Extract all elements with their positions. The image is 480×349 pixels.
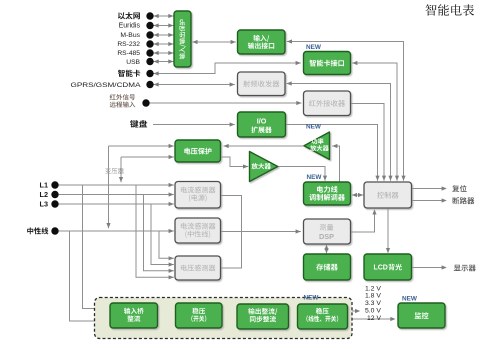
wire: sensor bus to measurement DSP: [221, 231, 301, 233]
node dot USB: [146, 58, 153, 65]
svg-text:12 V: 12 V: [367, 315, 381, 322]
wire: DSP to memory (bidirectional): [326, 245, 328, 253]
wire: I/O protection to I/O interface (bidirectional): [192, 41, 236, 43]
box input bridge rectifier: [110, 303, 158, 328]
amplifier (triangle): [250, 152, 278, 182]
power amplifier (triangle, pointing left): [304, 132, 330, 160]
wire: L1 branch to voltage sensor: [136, 185, 174, 277]
wire: voltage protection left input B (to L1 via transformer): [121, 156, 174, 158]
box RF transceiver: [238, 72, 286, 96]
svg-text:NEW: NEW: [307, 174, 323, 181]
node dot L2: [51, 191, 58, 198]
box controller: [364, 182, 412, 208]
wire: L3 phase line: [58, 203, 174, 205]
wire: L1 phase line: [58, 184, 174, 186]
wire: measurement DSP to controller: [351, 210, 375, 232]
wire: RF transceiver to controller bus: [287, 84, 391, 181]
svg-text:5.0 V: 5.0 V: [365, 308, 381, 315]
node dot neutral: [51, 227, 58, 234]
wire: current sensor (mains) output to sensor bus: [221, 196, 242, 232]
wire: L3 branch to voltage sensor: [151, 204, 174, 265]
wire: keypad to I/O expander: [153, 124, 235, 126]
label circuit breaker: [453, 197, 475, 204]
box memory: [304, 254, 351, 280]
wire: PLC modem to controller (bidirectional): [352, 194, 363, 196]
wire: power amplifier output to voltage protection: [224, 145, 305, 147]
svg-text:GPRS/GSM/CDMA: GPRS/GSM/CDMA: [71, 82, 142, 89]
box power-line modem: [304, 182, 351, 205]
svg-text:RS-232: RS-232: [117, 41, 140, 48]
title 智能电表: [426, 4, 475, 16]
wire: voltage protection left input A (to neutral via transformer): [109, 145, 174, 147]
wire: input bridge to regulator (switch): [158, 315, 173, 317]
wire: smart-card port to smart-card interface: [154, 63, 301, 74]
node dot L1: [51, 181, 58, 188]
wire: voltage sensor output to sensor bus: [221, 232, 242, 269]
wire: neutral branch to power supply input bridge: [70, 231, 107, 321]
box measurement DSP: [304, 219, 351, 244]
label display: [454, 265, 476, 272]
box voltage sensor: [175, 256, 221, 280]
wire: IR receiver to controller bus: [351, 104, 384, 181]
svg-text:L2: L2: [39, 190, 48, 199]
wire: controller to LCD backlight: [387, 209, 389, 253]
node dot Ethernet: [146, 12, 153, 19]
label transformer: [105, 168, 124, 174]
node dot RS-232: [146, 40, 153, 47]
label IR signal / remote input: [110, 94, 135, 100]
svg-text:RS-485: RS-485: [117, 50, 140, 57]
label reset: [452, 185, 467, 192]
box smart-card interface: [304, 52, 351, 75]
node dot RS-485: [146, 49, 153, 56]
wire: L2 phase line: [58, 194, 174, 196]
box IR receiver: [304, 91, 351, 116]
svg-text:L1: L1: [39, 181, 48, 190]
wire: amplifier output to PLC modem: [278, 167, 325, 181]
box U1 input/output protection (rotated): [174, 11, 191, 67]
svg-text:USB: USB: [126, 59, 140, 66]
wire: controller to reset output: [412, 188, 445, 190]
svg-text:L3: L3: [39, 200, 48, 209]
svg-text:1.8 V: 1.8 V: [365, 293, 381, 300]
box input/output interface: [238, 30, 286, 54]
label neutral: [27, 227, 48, 234]
wire: L2 branch to voltage sensor: [144, 195, 174, 271]
svg-text:I/O: I/O: [257, 116, 267, 125]
wire: IR signal input to IR receiver: [150, 102, 302, 104]
svg-text:NEW: NEW: [402, 295, 418, 302]
box current sensor (neutral): [175, 218, 221, 243]
node dot L3: [51, 200, 58, 207]
wire: L1 branch to power supply input bridge: [83, 185, 107, 309]
svg-text:NEW: NEW: [304, 294, 320, 301]
wire: GPRS/GSM/CDMA port to RF transceiver: [154, 84, 235, 86]
label Ethernet port: [118, 12, 140, 19]
wire: I/O interface to controller bus: [287, 42, 404, 181]
node dot Euridis: [146, 22, 153, 29]
box regulator (linear, switch): [298, 304, 348, 329]
box LCD backlight: [364, 254, 412, 280]
box supervisor: [398, 303, 445, 328]
box output/synchronous rectification: [237, 304, 289, 329]
wire: output rectification to regulator linear/switch (bidirectional): [289, 316, 296, 318]
node dot smart card: [146, 70, 153, 77]
wire: smart-card interface to controller bus: [352, 63, 397, 181]
power supply dashed container: [95, 298, 353, 339]
svg-text:1.2 V: 1.2 V: [365, 285, 381, 292]
wire: neutral line to neutral current sensor: [58, 230, 174, 232]
wire: 12V rail to supervisor: [348, 318, 393, 320]
wire: controller to circuit-breaker output: [412, 200, 445, 202]
svg-text:Euridis: Euridis: [119, 22, 141, 29]
wire: LCD backlight to display: [412, 267, 445, 269]
wire: regulator (switch) to output rectification: [222, 315, 234, 317]
box voltage protection: [175, 140, 221, 162]
node dot M-Bus: [146, 31, 153, 38]
svg-text:LCD: LCD: [373, 265, 387, 272]
node dot GPRS: [146, 81, 153, 88]
wire: I/O expander to controller bus: [286, 125, 378, 181]
label keypad: [130, 120, 147, 128]
wire: neutral branch to voltage sensor: [159, 231, 174, 258]
wires: comm ports to I/O protection (bidirectional): [154, 15, 174, 17]
wire: regulator output to 5.0V rail: [348, 310, 358, 312]
svg-text:NEW: NEW: [306, 44, 322, 51]
box I/O expander: [238, 112, 286, 137]
svg-text:M-Bus: M-Bus: [120, 32, 140, 39]
wire: voltage protection to amplifier: [222, 157, 249, 167]
svg-text:3.3 V: 3.3 V: [365, 300, 381, 307]
box regulator (switch): [176, 303, 223, 328]
wire: PLC modem to power amplifier input: [332, 146, 339, 182]
svg-text:NEW: NEW: [306, 124, 322, 131]
label smart card port: [118, 70, 140, 77]
box current sensor (mains): [175, 182, 221, 209]
svg-text:DSP: DSP: [319, 232, 334, 241]
node dot IR input: [142, 99, 149, 106]
